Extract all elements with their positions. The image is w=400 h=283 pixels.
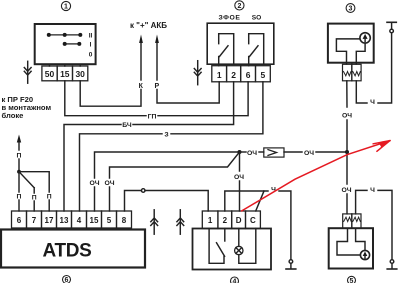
U1 terminal block 50 15 30	[42, 66, 88, 81]
svg-text:З: З	[164, 132, 168, 139]
ground body symbol left of K2	[194, 61, 201, 85]
text to fuse F20	[2, 95, 52, 120]
red annotation arrow to pin D	[242, 141, 391, 211]
svg-text:ATDS: ATDS	[42, 241, 91, 262]
svg-text:5: 5	[107, 216, 112, 225]
wire junction to pin17	[19, 172, 49, 192]
item5 internal wiring	[337, 228, 360, 255]
svg-text:6: 6	[65, 277, 69, 283]
wire Ch: item4 pin2 and pin C to body bolt	[225, 191, 268, 211]
svg-text:17: 17	[45, 216, 54, 225]
svg-text:II: II	[89, 32, 93, 39]
wire BCh row: ATDS pin13 to K2 terminal 2	[64, 125, 121, 212]
wire junction to pin6	[18, 172, 20, 192]
item3 heater connector with filaments	[343, 64, 362, 81]
svg-text:2: 2	[223, 216, 228, 225]
svg-text:к "+" АКБ: к "+" АКБ	[130, 21, 167, 30]
label R	[153, 81, 162, 90]
svg-text:ОЧ: ОЧ	[341, 187, 351, 194]
svg-text:3: 3	[349, 6, 353, 13]
item4 switch-lamp box	[193, 229, 272, 270]
label K	[137, 81, 146, 90]
svg-text:ГП: ГП	[148, 113, 157, 120]
wire GP row: U1 terminal 15 to K2 terminal 6	[65, 81, 146, 116]
motor M2 box item5	[329, 228, 373, 268]
node junction OCh	[238, 150, 242, 154]
svg-text:П: П	[47, 193, 52, 200]
svg-text:ОЧ: ОЧ	[342, 113, 352, 120]
U1 terminal stubs	[50, 64, 81, 66]
U1 contact row II	[47, 33, 83, 37]
svg-text:15: 15	[60, 69, 70, 79]
wire OCh X1 to right vertical	[284, 151, 302, 153]
relay switch S2	[249, 34, 264, 66]
ignition switch U1 box	[35, 24, 96, 64]
svg-text:ОЧ: ОЧ	[104, 180, 114, 187]
svg-text:4: 4	[77, 216, 82, 225]
svg-text:4: 4	[233, 279, 237, 283]
svg-text:50: 50	[45, 69, 55, 79]
wire OCh second: ATDS pin5 up right diagonal to junction	[110, 152, 240, 211]
svg-text:П: П	[32, 195, 37, 202]
label circle 4	[231, 277, 239, 283]
wire OCh main: ATDS pin15 up and right to junction	[95, 152, 240, 211]
relay K2 box	[207, 23, 274, 64]
svg-text:6: 6	[17, 216, 22, 225]
node junction OCh right	[345, 150, 349, 154]
svg-text:8: 8	[122, 216, 127, 225]
svg-text:П: П	[17, 152, 22, 159]
item5 heater connector with filaments	[343, 214, 361, 228]
label circle 6	[63, 276, 71, 283]
label circle 2	[235, 1, 244, 10]
svg-text:ОЧ: ОЧ	[304, 150, 314, 157]
relay marking text	[218, 15, 261, 22]
arrow to F20	[17, 135, 21, 151]
svg-text:Ч: Ч	[370, 99, 375, 106]
ATDS unit box	[1, 230, 145, 268]
node junction P	[17, 170, 21, 174]
item3 internal wiring	[336, 39, 359, 64]
svg-text:5: 5	[350, 278, 354, 283]
wire O: ATDS pin8 to switch pin 1	[125, 191, 142, 212]
U1 contact row I	[63, 42, 82, 46]
motor M1 box item3	[328, 24, 374, 63]
svg-text:5: 5	[261, 70, 266, 80]
wire Ch item5 to body bolt bottom right	[356, 190, 367, 214]
svg-text:D: D	[236, 216, 242, 225]
svg-text:ЗФОЕ: ЗФОЕ	[218, 15, 240, 22]
wire OCh item3 down	[346, 81, 348, 214]
body ground symbol up-chevron right	[177, 210, 184, 234]
svg-text:30: 30	[75, 69, 85, 79]
body bolt symbol bottom middle	[286, 260, 296, 269]
svg-text:15: 15	[90, 216, 99, 225]
item4 internal lamp	[235, 229, 256, 264]
motor M2 circle	[360, 250, 369, 259]
item4 internal switch	[209, 229, 225, 264]
wire R from label to relay terminal 1	[157, 82, 219, 103]
svg-text:7: 7	[32, 216, 37, 225]
battery arrow K	[139, 35, 143, 81]
svg-text:ОЧ: ОЧ	[89, 180, 99, 187]
label circle 3	[346, 4, 355, 13]
wire OCh junction down to lamp D pin	[239, 152, 241, 211]
body ground symbol up-chevron left	[151, 210, 158, 234]
svg-text:П: П	[17, 193, 22, 200]
svg-text:БЧ: БЧ	[122, 122, 132, 129]
svg-text:1: 1	[217, 70, 222, 80]
label circle 5	[348, 276, 356, 283]
relay switch S1	[219, 34, 234, 66]
battery arrow P	[155, 35, 159, 81]
svg-text:6: 6	[246, 70, 251, 80]
body bolt symbol bottom right	[387, 260, 397, 269]
svg-text:1: 1	[64, 4, 68, 11]
svg-text:блоке: блоке	[2, 111, 24, 120]
svg-text:13: 13	[60, 216, 69, 225]
connector X1 symbol	[259, 148, 284, 157]
svg-text:ЅО: ЅО	[252, 15, 262, 22]
svg-text:ОЧ: ОЧ	[234, 174, 244, 181]
ground body symbol left of U1	[24, 61, 31, 83]
U1 position labels II I 0	[89, 32, 93, 58]
svg-text:2: 2	[231, 70, 236, 80]
svg-text:ОЧ: ОЧ	[247, 150, 257, 157]
svg-text:I: I	[90, 41, 92, 48]
label circle 1	[61, 1, 70, 10]
wire P from arrow to junction	[18, 159, 20, 172]
wire Z row: ATDS pin4 to K2 terminal 5	[80, 134, 163, 211]
svg-text:2: 2	[237, 3, 241, 10]
svg-text:1: 1	[208, 216, 213, 225]
svg-text:C: C	[250, 216, 256, 225]
wire Ch item3 to body bolt top right	[356, 81, 367, 103]
wire O continue to pin1 of item4	[145, 191, 208, 212]
wire OCh junction to connector X1	[240, 151, 247, 153]
relay terminal block 1 2 6 5	[212, 66, 270, 82]
body bolt symbol top right	[387, 22, 396, 33]
connector circle in O wire	[141, 189, 145, 193]
wire junction diagonal to pin7	[19, 172, 34, 193]
item4 pin row 1 2 D C	[202, 211, 260, 229]
motor M1 circle	[360, 33, 370, 43]
ATDS pin row 6 7 17 13 4 15 5 8	[12, 211, 132, 228]
svg-text:0: 0	[89, 51, 93, 58]
wire K from label to bend to terminal 30	[80, 81, 141, 106]
svg-text:Ч: Ч	[370, 187, 375, 194]
